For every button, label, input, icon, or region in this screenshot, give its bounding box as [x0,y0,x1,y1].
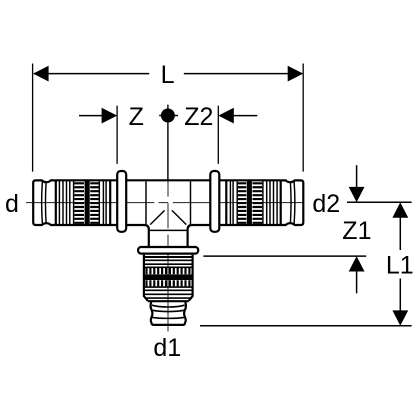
L1 bottom reference line (branch end level) [200,325,412,327]
dimension L: dimension line [34,73,302,75]
dimension Z: arrow [102,108,118,124]
dimension Z/Z2: extension lines [117,106,218,164]
branch knurl rungs upper [147,268,190,274]
svg-text:L1: L1 [386,252,414,280]
dimension L: right arrow [288,66,304,82]
dimension Z2: arrow line [232,115,257,117]
svg-text:Z: Z [129,103,144,131]
svg-text:Z2: Z2 [184,103,213,131]
body bore lines [146,181,191,224]
Z1 arrow line [356,271,358,294]
branch flange [138,247,198,254]
Z1 reference line (flange bottom level) [203,255,366,257]
branch neck bore line [150,229,187,231]
vertical centerline (axis of branch) [167,182,169,332]
L1 dimension line upper [399,217,401,250]
body (center section of tee) [126,180,210,247]
d2 down arrow [349,187,365,202]
left press sleeve outline [56,180,117,225]
left sleeve indicator band (black) [85,181,90,225]
right collar (press indicator ring) [210,171,219,232]
dimension L: left arrow [33,66,49,82]
svg-text:d: d [5,190,19,218]
left pipe stub (pipe end, left run) [33,180,56,225]
left collar (press indicator ring) [117,171,126,232]
center point dot [161,109,175,123]
svg-text:d1: d1 [153,334,181,362]
horizontal centerline (axis of run pipe, d reference) [26,202,304,204]
d2 reference line [347,201,412,203]
branch stub groove lines [152,305,185,318]
branch sleeve rings [145,256,192,258]
dimension Z: arrow line [79,115,103,117]
body transition diagonals [150,210,186,224]
left sleeve knurl rungs ladder 2 [90,183,99,223]
svg-text:Z1: Z1 [342,217,371,245]
branch knurl rungs lower [147,280,190,286]
center point dot ticks [159,105,178,182]
left sleeve ladder rails [74,181,100,224]
left sleeve thin rings [59,181,106,224]
d2 arrow line [356,165,358,188]
left stub groove lines [42,182,46,224]
svg-text:L: L [161,61,175,89]
L1 bottom down arrow [392,310,408,325]
dimension Z2: arrow [218,108,234,124]
branch pipe stub (d1 pipe end) [151,302,186,325]
right press sleeve (mirrored) [219,180,280,225]
branch sleeve sides [144,255,193,301]
L1 top up arrow [392,202,408,217]
branch indicator band (black) [144,274,192,280]
left sleeve knurl rungs ladder 1 [74,183,84,223]
right pipe stub (mirrored) [281,180,304,225]
L1 dimension line lower [399,279,401,311]
svg-text:d2: d2 [312,190,340,218]
Z1 up arrow [349,256,365,271]
dimension L: extension lines [33,64,304,172]
